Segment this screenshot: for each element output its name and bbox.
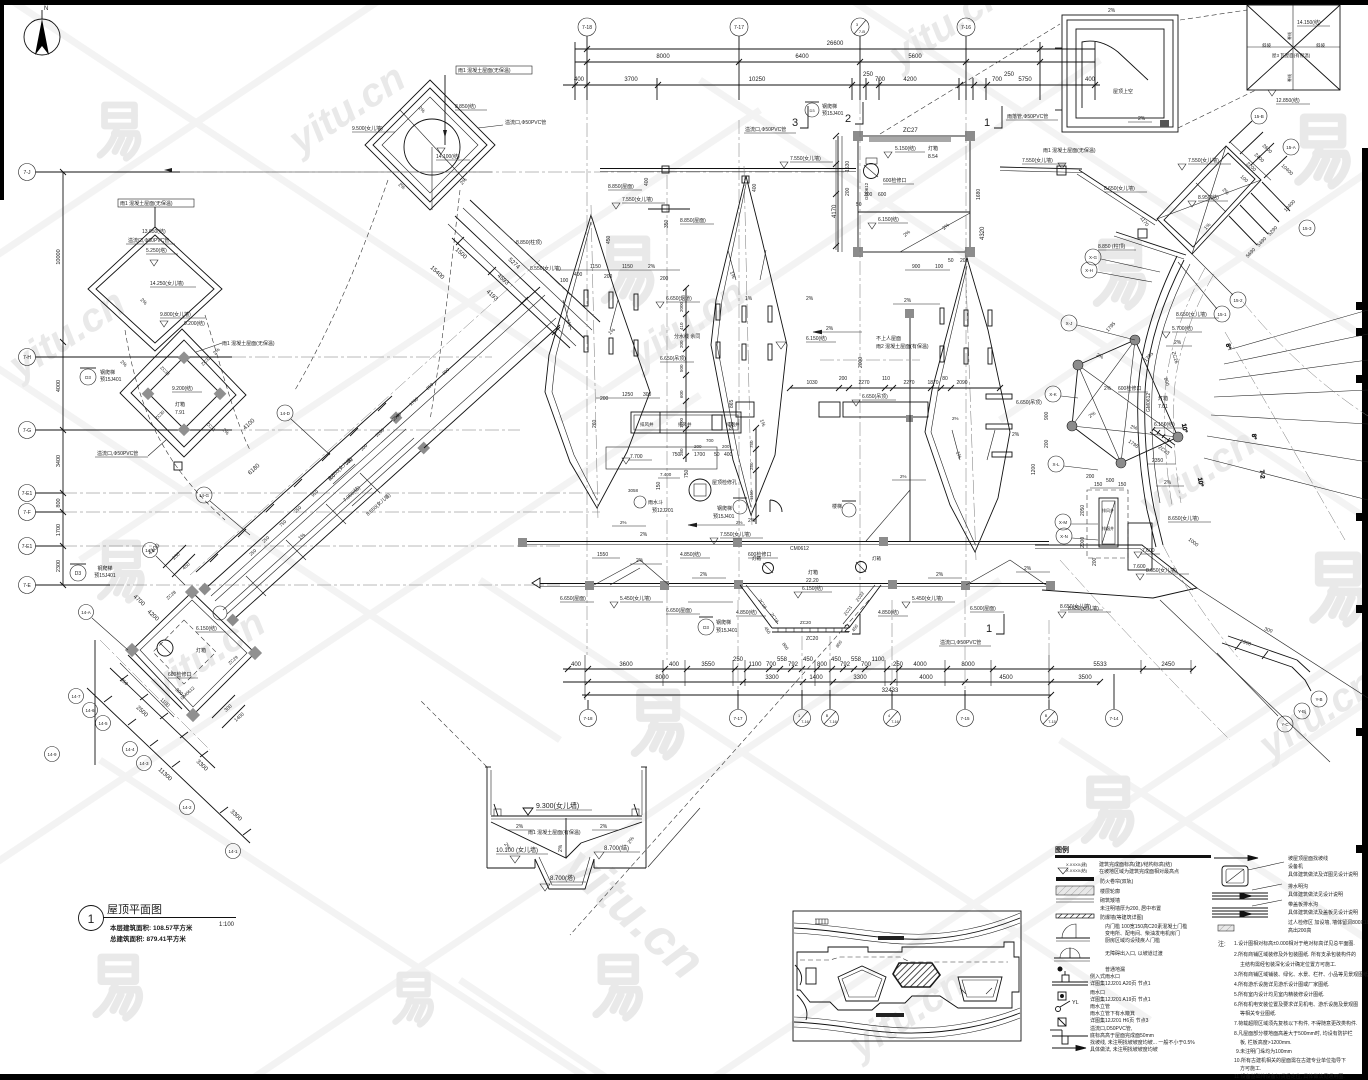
svg-text:雨1 混凝土屋面(有保温): 雨1 混凝土屋面(有保温) xyxy=(528,829,581,836)
svg-text:排水明沟: 排水明沟 xyxy=(1288,883,1308,890)
grid bubble 3/7-B xyxy=(851,18,869,100)
svg-text:7-16: 7-16 xyxy=(829,720,837,724)
svg-text:楼梯: 楼梯 xyxy=(832,503,842,510)
small diamond D2 xyxy=(88,199,222,351)
svg-text:2000: 2000 xyxy=(858,357,864,368)
svg-text:具体建筑做法见设计说明: 具体建筑做法见设计说明 xyxy=(1288,891,1343,898)
svg-text:无障碍出入口, 以坡道过渡: 无障碍出入口, 以坡道过渡 xyxy=(1105,950,1163,957)
far top-right tile roof square xyxy=(1247,5,1340,104)
svg-text:溢流口,Φ50PVC管: 溢流口,Φ50PVC管 xyxy=(940,639,981,646)
svg-text:1700: 1700 xyxy=(694,452,705,458)
2% arrows field xyxy=(688,523,745,527)
dashed leaders between diamonds xyxy=(125,330,225,520)
svg-text:400: 400 xyxy=(574,272,583,278)
svg-text:普通地漏: 普通地漏 xyxy=(1105,966,1125,973)
svg-text:32433: 32433 xyxy=(882,688,899,694)
row: side rain inlet xyxy=(1052,971,1088,985)
svg-text:2%: 2% xyxy=(1108,8,1116,14)
svg-text:1150: 1150 xyxy=(749,490,754,500)
light grid verticals central xyxy=(180,100,966,660)
svg-text:750: 750 xyxy=(749,440,754,448)
svg-text:7.600: 7.600 xyxy=(1133,564,1146,570)
svg-text:9.300(女儿墙): 9.300(女儿墙) xyxy=(536,801,579,810)
svg-text:12.850(结): 12.850(结) xyxy=(1276,97,1300,104)
leader dashed from tower to detail xyxy=(880,24,1060,134)
svg-text:D3: D3 xyxy=(75,571,82,577)
svg-text:X-L: X-L xyxy=(1052,462,1060,467)
svg-text:900: 900 xyxy=(912,264,921,270)
svg-text:1.设计图相对标高±0.000相对于绝对标高详见总平面图.: 1.设计图相对标高±0.000相对于绝对标高详见总平面图. xyxy=(1234,940,1355,947)
svg-text:4500: 4500 xyxy=(999,675,1013,681)
svg-text:预15J401: 预15J401 xyxy=(94,572,116,579)
svg-text:7-2: 7-2 xyxy=(1258,470,1265,480)
left grid bubbles column xyxy=(19,164,601,762)
svg-text:排风井: 排风井 xyxy=(1102,507,1114,513)
svg-text:6.150(结): 6.150(结) xyxy=(802,585,823,592)
svg-text:X-G: X-G xyxy=(1089,255,1098,260)
svg-text:14-2: 14-2 xyxy=(182,805,192,810)
svg-text:5.700(结): 5.700(结) xyxy=(1172,325,1193,332)
site inset key plan xyxy=(793,911,1021,1041)
north arrow xyxy=(24,6,60,55)
corridor stub to lower-left xyxy=(128,655,182,709)
svg-text:4200: 4200 xyxy=(903,77,917,83)
svg-text:预15J401: 预15J401 xyxy=(716,627,738,634)
svg-text:4.850(结): 4.850(结) xyxy=(878,609,899,616)
svg-text:2%: 2% xyxy=(806,296,814,302)
svg-text:雨水斗: 雨水斗 xyxy=(648,499,663,506)
svg-text:2%: 2% xyxy=(648,264,656,270)
svg-text:1150: 1150 xyxy=(590,264,601,270)
svg-text:4: 4 xyxy=(888,714,890,718)
X bubbles leaders xyxy=(1045,249,1101,544)
svg-text:脊线: 脊线 xyxy=(1286,74,1292,82)
hatched hexagon xyxy=(893,963,940,987)
row: floor profile xyxy=(1056,886,1094,895)
svg-text:400: 400 xyxy=(574,77,585,83)
svg-text:1150: 1150 xyxy=(622,264,633,270)
svg-text:1:100: 1:100 xyxy=(219,922,235,928)
svg-text:680检修口: 680检修口 xyxy=(168,671,191,678)
svg-text:450: 450 xyxy=(803,657,814,663)
svg-text:8.850(屋面): 8.850(屋面) xyxy=(680,218,706,224)
svg-text:8.650(女儿墙): 8.650(女儿墙) xyxy=(1146,567,1177,574)
dimension line 400/3700/10250/250/700/4200/700/250/5750/400 xyxy=(563,42,1100,100)
svg-text:侧入式雨水口: 侧入式雨水口 xyxy=(1090,973,1120,980)
svg-text:4320: 4320 xyxy=(980,226,986,240)
svg-text:雨1 混凝土屋面(无保温): 雨1 混凝土屋面(无保温) xyxy=(222,340,275,347)
svg-text:13.650(结): 13.650(结) xyxy=(142,228,166,235)
svg-text:8.650(女儿墙): 8.650(女儿墙) xyxy=(1176,311,1207,318)
svg-text:7-17: 7-17 xyxy=(734,25,744,31)
mid parapet upper xyxy=(518,309,1049,564)
central vertical dim chains xyxy=(612,285,959,526)
svg-text:预15J401: 预15J401 xyxy=(713,513,735,520)
Y leader bottom right xyxy=(1217,626,1327,732)
svg-text:6.650(吊顶): 6.650(吊顶) xyxy=(862,394,888,400)
svg-text:斜坡: 斜坡 xyxy=(1316,42,1325,49)
grid bubble 15-3 xyxy=(1299,220,1315,236)
svg-text:找坡线, 未注明找坡坡度均坡... 一般不小于0.5%: 找坡线, 未注明找坡坡度均坡... 一般不小于0.5% xyxy=(1090,1039,1195,1046)
svg-text:26600: 26600 xyxy=(827,41,844,47)
svg-text:400: 400 xyxy=(752,183,758,192)
svg-text:6.150(结): 6.150(结) xyxy=(806,335,827,342)
svg-text:7.700: 7.700 xyxy=(630,454,643,460)
svg-text:400: 400 xyxy=(669,662,680,668)
svg-text:X.XXXX(建): X.XXXX(建) xyxy=(1066,861,1088,867)
row: low wall xyxy=(1056,899,1094,902)
svg-text:防爆墙(等建筑详图): 防爆墙(等建筑详图) xyxy=(1100,914,1144,921)
svg-text:7-E1: 7-E1 xyxy=(22,491,33,497)
svg-text:8000: 8000 xyxy=(656,54,670,60)
svg-text:3.所有商铺区域铺装、绿化、水景、栏杆、小品等见景观图纸.: 3.所有商铺区域铺装、绿化、水景、栏杆、小品等见景观图纸. xyxy=(1234,971,1368,978)
svg-text:详图集12J201 A20页 节点1: 详图集12J201 A20页 节点1 xyxy=(1090,980,1151,987)
bottom road xyxy=(794,1013,1020,1033)
svg-text:14-6: 14-6 xyxy=(85,708,95,713)
svg-text:5.250(塔): 5.250(塔) xyxy=(146,247,167,254)
svg-text:22.20: 22.20 xyxy=(806,578,819,584)
svg-text:ZC20: ZC20 xyxy=(800,620,812,625)
svg-text:排烟井: 排烟井 xyxy=(1102,525,1114,531)
grid bubble 15-2 / 15-1 xyxy=(1214,292,1246,322)
svg-text:溢流口,Φ50PVC管: 溢流口,Φ50PVC管 xyxy=(128,237,169,244)
svg-text:250: 250 xyxy=(863,72,874,78)
svg-text:灯箱: 灯箱 xyxy=(175,401,185,408)
svg-text:X-J: X-J xyxy=(1066,321,1073,326)
svg-text:14-1: 14-1 xyxy=(228,849,238,854)
svg-text:7-E: 7-E xyxy=(23,583,31,589)
grid bubble 15-A xyxy=(1283,139,1299,155)
svg-text:7.01: 7.01 xyxy=(1158,404,1168,410)
mid parapet lower xyxy=(532,546,1103,614)
svg-text:总建筑面积: 879.41平方米: 总建筑面积: 879.41平方米 xyxy=(110,934,186,943)
leaf 1 xyxy=(545,215,650,508)
svg-text:2%: 2% xyxy=(600,824,608,830)
svg-text:11.设备基础待设备订货后定位, 具体做法见通用图.: 11.设备基础待设备订货后定位, 具体做法见通用图. xyxy=(1234,1073,1345,1080)
perpendicular tick chains near pavilion xyxy=(163,545,245,728)
svg-text:B: B xyxy=(1045,714,1048,718)
duct rects between leaf2 and leaf3 xyxy=(729,394,1050,475)
grid bubble 7-J xyxy=(19,164,493,181)
svg-text:7-18: 7-18 xyxy=(582,25,592,31)
svg-text:CM0612: CM0612 xyxy=(790,546,809,552)
svg-text:250: 250 xyxy=(733,657,744,663)
svg-text:B: B xyxy=(826,714,829,718)
svg-text:700: 700 xyxy=(861,662,872,668)
svg-text:1870: 1870 xyxy=(927,380,938,386)
dim chain top-right of annex xyxy=(1229,121,1252,143)
svg-text:9.未注明门垛均为100mm: 9.未注明门垛均为100mm xyxy=(1236,1048,1292,1055)
svg-text:100: 100 xyxy=(935,264,944,270)
svg-text:7-G: 7-G xyxy=(23,428,31,434)
svg-text:5.所有室内设计均见室内精装修设计图纸.: 5.所有室内设计均见室内精装修设计图纸. xyxy=(1234,991,1325,998)
svg-text:7-E1: 7-E1 xyxy=(22,544,33,550)
svg-text:700: 700 xyxy=(875,77,886,83)
left blobs xyxy=(795,965,802,985)
svg-text:4000: 4000 xyxy=(56,380,62,392)
sheet frame right bar xyxy=(1362,148,1368,1080)
bottom grid bubble row xyxy=(580,600,1123,727)
svg-text:9.200(结): 9.200(结) xyxy=(184,320,205,327)
svg-text:10.所有古建机相关的屋面需在古建专业单位指导下: 10.所有古建机相关的屋面需在古建专业单位指导下 xyxy=(1234,1057,1346,1064)
top-right roof void detail rect xyxy=(1055,8,1178,132)
svg-text:7-15: 7-15 xyxy=(960,716,970,721)
svg-text:过人检修区 加设墙, 墙体留洞800X1800: 过人检修区 加设墙, 墙体留洞800X1800 xyxy=(1288,919,1368,926)
svg-text:410: 410 xyxy=(679,322,684,330)
svg-text:雨水立管下有水簸箕: 雨水立管下有水簸箕 xyxy=(1090,1010,1135,1017)
grid bubble 7-E1 xyxy=(19,485,601,502)
svg-text:坡屋顶屋面找坡线: 坡屋顶屋面找坡线 xyxy=(1288,855,1328,862)
svg-text:图例: 图例 xyxy=(1055,845,1069,854)
svg-text:7-16: 7-16 xyxy=(961,25,971,31)
svg-text:2270: 2270 xyxy=(858,380,869,386)
top road xyxy=(794,918,1020,939)
svg-text:YL: YL xyxy=(1072,1000,1079,1006)
svg-text:900: 900 xyxy=(1044,411,1050,420)
svg-text:800: 800 xyxy=(56,498,62,507)
svg-text:8000: 8000 xyxy=(655,675,669,681)
svg-text:6.所有机电安装位置及要求详见机电、游乐设施及景观图: 6.所有机电安装位置及要求详见机电、游乐设施及景观图 xyxy=(1234,1001,1358,1008)
svg-text:150: 150 xyxy=(1094,482,1103,488)
svg-text:N: N xyxy=(44,6,48,12)
svg-text:10250: 10250 xyxy=(749,77,766,83)
svg-text:2%: 2% xyxy=(558,844,564,852)
svg-text:8.凡屋面部分楼地面高差大于500mm时, 均设有防护栏: 8.凡屋面部分楼地面高差大于500mm时, 均设有防护栏 xyxy=(1234,1030,1353,1037)
svg-text:溢流口,Φ50PVC管: 溢流口,Φ50PVC管 xyxy=(505,119,546,126)
bottom-left rotated pavilion xyxy=(100,585,262,750)
svg-text:7.550(女儿墙): 7.550(女儿墙) xyxy=(1022,157,1053,164)
svg-text:200: 200 xyxy=(1044,439,1050,448)
svg-text:1: 1 xyxy=(88,912,95,926)
svg-text:2%: 2% xyxy=(1138,116,1146,122)
svg-text:本层建筑面积: 108.57平方米: 本层建筑面积: 108.57平方米 xyxy=(110,923,193,932)
svg-text:X-H: X-H xyxy=(1085,268,1093,273)
svg-text:7-17: 7-17 xyxy=(733,716,743,721)
dimension line 26600 xyxy=(575,41,1095,52)
spindle leaf roofs xyxy=(545,166,1010,602)
right side: parapet to rotated annex xyxy=(1000,108,1315,322)
radial fan lines to right edge xyxy=(1180,302,1368,540)
row: door sill xyxy=(1056,924,1090,941)
svg-text:1100: 1100 xyxy=(749,662,763,668)
svg-text:D3: D3 xyxy=(85,375,91,380)
svg-text:屋顶检修孔: 屋顶检修孔 xyxy=(712,479,737,486)
svg-text:厨房区域均设残疾人门槛: 厨房区域均设残疾人门槛 xyxy=(1105,937,1160,944)
upper-left diamond pavilion D1 xyxy=(352,66,546,210)
svg-text:2%: 2% xyxy=(936,572,944,578)
svg-text:1: 1 xyxy=(986,623,992,635)
svg-text:建筑完成面标高(建)/结构标高(结): 建筑完成面标高(建)/结构标高(结) xyxy=(1099,861,1172,868)
svg-text:雨1 混凝土屋面(无保温): 雨1 混凝土屋面(无保温) xyxy=(458,67,511,74)
svg-text:具体建筑做法及盖板见设计说明: 具体建筑做法及盖板见设计说明 xyxy=(1288,909,1358,916)
hexagonal pavilion right xyxy=(1045,249,1183,544)
slope arrows inside leaves xyxy=(563,250,995,460)
svg-text:雨水口: 雨水口 xyxy=(1090,989,1105,996)
svg-text:板, 栏板高度>1200mm.: 板, 栏板高度>1200mm. xyxy=(1240,1039,1292,1046)
svg-text:溢流口,Φ50PVC管: 溢流口,Φ50PVC管 xyxy=(97,450,138,457)
svg-text:200: 200 xyxy=(600,396,609,402)
svg-text:792: 792 xyxy=(788,662,799,668)
dim chain bottom-right of annex xyxy=(1262,182,1290,211)
svg-text:砌筑矮墙: 砌筑矮墙 xyxy=(1100,897,1120,904)
section detail U-shape xyxy=(420,700,700,891)
svg-text:3700: 3700 xyxy=(624,77,638,83)
svg-text:14-A: 14-A xyxy=(81,610,91,615)
svg-text:7-J: 7-J xyxy=(24,170,31,176)
svg-text:200: 200 xyxy=(1092,557,1098,566)
svg-text:200: 200 xyxy=(1086,474,1095,480)
sheet frame left bar xyxy=(0,0,4,200)
svg-text:50: 50 xyxy=(714,452,720,458)
svg-text:变电所、配电间、柴油发电机房门: 变电所、配电间、柴油发电机房门 xyxy=(1105,930,1180,937)
svg-text:钢爬梯: 钢爬梯 xyxy=(100,369,115,376)
svg-text:灯箱: 灯箱 xyxy=(872,555,881,562)
svg-text:300: 300 xyxy=(643,392,652,398)
svg-text:灯箱: 灯箱 xyxy=(928,145,938,152)
svg-text:14-B: 14-B xyxy=(145,548,155,553)
svg-text:溢流口,D50PVC管,: 溢流口,D50PVC管, xyxy=(1090,1025,1132,1032)
row: rain inlet xyxy=(1058,992,1066,1000)
svg-text:15-1: 15-1 xyxy=(1217,312,1227,317)
svg-text:700: 700 xyxy=(766,662,777,668)
svg-text:2090: 2090 xyxy=(956,380,967,386)
svg-text:7-H: 7-H xyxy=(23,355,31,361)
svg-text:15-2: 15-2 xyxy=(1233,298,1243,303)
svg-text:5750: 5750 xyxy=(1018,77,1032,83)
svg-text:2%: 2% xyxy=(826,326,834,332)
rotated annex rectangle xyxy=(1157,146,1261,254)
svg-text:15-3: 15-3 xyxy=(1302,226,1312,231)
svg-text:750: 750 xyxy=(684,469,690,478)
svg-text:带盖板排水沟: 带盖板排水沟 xyxy=(1288,901,1318,908)
svg-text:ZC20: ZC20 xyxy=(806,636,818,642)
svg-text:2: 2 xyxy=(845,113,851,125)
svg-text:4.所有游乐设施详见游乐设计图或厂家图纸.: 4.所有游乐设施详见游乐设计图或厂家图纸. xyxy=(1234,981,1330,988)
svg-text:7.400: 7.400 xyxy=(660,472,672,477)
svg-text:2%: 2% xyxy=(1012,432,1020,438)
svg-text:750: 750 xyxy=(672,452,681,458)
svg-text:7-16: 7-16 xyxy=(801,720,809,724)
svg-text:Y-Bj: Y-Bj xyxy=(1298,709,1306,714)
svg-text:D3: D3 xyxy=(703,625,709,630)
svg-text:50: 50 xyxy=(856,202,862,208)
svg-text:Y-B: Y-B xyxy=(1315,697,1322,702)
grid bubble 7-E2 xyxy=(19,538,561,555)
central dim row 1030/200/2270 xyxy=(787,376,1003,391)
svg-text:2050: 2050 xyxy=(1080,505,1086,516)
watermark glyph 易 instances xyxy=(96,105,1361,1025)
svg-text:8.850(柱顶): 8.850(柱顶) xyxy=(516,239,542,246)
svg-text:260: 260 xyxy=(592,419,598,428)
svg-text:钢爬梯: 钢爬梯 xyxy=(97,565,112,572)
svg-text:14.150(结): 14.150(结) xyxy=(1297,19,1321,26)
svg-text:不上人屋面: 不上人屋面 xyxy=(876,335,901,342)
sheet frame top bar xyxy=(0,0,1368,5)
svg-text:1400: 1400 xyxy=(809,675,823,681)
svg-text:7-F: 7-F xyxy=(23,510,31,516)
svg-text:预15J401: 预15J401 xyxy=(100,376,122,383)
svg-text:6.150(结): 6.150(结) xyxy=(196,625,217,632)
leaf 2 xyxy=(711,176,787,515)
svg-text:1550: 1550 xyxy=(597,552,608,558)
svg-text:雨落管,Φ50PVC管: 雨落管,Φ50PVC管 xyxy=(1007,113,1048,120)
svg-text:雨2 混凝土屋面(有保温): 雨2 混凝土屋面(有保温) xyxy=(876,343,929,350)
svg-text:详图集12J201 A19页 节点1: 详图集12J201 A19页 节点1 xyxy=(1090,996,1151,1003)
svg-text:1530: 1530 xyxy=(845,161,851,172)
hatch bars leaf1 xyxy=(584,290,992,364)
grid bubble 14-G xyxy=(196,487,250,535)
svg-text:800: 800 xyxy=(817,662,828,668)
svg-text:6.650(屋面): 6.650(屋面) xyxy=(560,596,586,602)
svg-text:6.650(屋面): 6.650(屋面) xyxy=(666,608,692,614)
svg-text:2%: 2% xyxy=(900,474,907,479)
top comb xyxy=(815,919,828,924)
svg-text:600: 600 xyxy=(878,192,887,198)
hatched strut xyxy=(1150,427,1175,448)
svg-text:600检修口: 600检修口 xyxy=(883,177,906,184)
svg-text:排风井: 排风井 xyxy=(640,421,654,428)
grid bubble 7-16 xyxy=(957,18,975,100)
svg-text:ZC27: ZC27 xyxy=(903,128,918,134)
svg-text:2%: 2% xyxy=(636,558,644,564)
svg-text:1030: 1030 xyxy=(806,380,817,386)
svg-text:6.650(烟道): 6.650(烟道) xyxy=(666,295,692,302)
svg-text:注:: 注: xyxy=(1218,940,1226,948)
left pavilion xyxy=(838,966,886,1001)
svg-text:在坡地区域为建筑完成面相对最高点: 在坡地区域为建筑完成面相对最高点 xyxy=(1099,868,1179,875)
svg-text:1: 1 xyxy=(798,714,800,718)
leader to roof note xyxy=(444,75,446,145)
svg-text:2000: 2000 xyxy=(679,301,684,312)
svg-text:2450: 2450 xyxy=(1161,662,1175,668)
svg-text:4.850(结): 4.850(结) xyxy=(736,609,757,616)
svg-text:500: 500 xyxy=(1106,478,1115,484)
leaf 3 xyxy=(925,258,1010,552)
svg-text:2%: 2% xyxy=(736,520,743,525)
svg-text:200: 200 xyxy=(839,376,848,382)
svg-text:14-7: 14-7 xyxy=(71,694,81,699)
svg-text:7.600: 7.600 xyxy=(1142,548,1155,554)
svg-text:GM0612: GM0612 xyxy=(1146,393,1152,412)
svg-text:3300: 3300 xyxy=(765,675,779,681)
svg-text:2350: 2350 xyxy=(1152,458,1163,464)
open gutter xyxy=(1212,884,1282,899)
svg-text:8.700(结): 8.700(结) xyxy=(604,844,629,852)
strut upper xyxy=(1079,170,1157,221)
svg-text:内门槛 100宽150高C20素混凝土门槛: 内门槛 100宽150高C20素混凝土门槛 xyxy=(1105,923,1187,930)
svg-text:6.650(吊顶): 6.650(吊顶) xyxy=(660,356,686,362)
svg-text:1700: 1700 xyxy=(56,524,62,536)
row: level symbol xyxy=(1058,861,1179,875)
svg-text:2%: 2% xyxy=(1174,340,1182,346)
svg-text:3600: 3600 xyxy=(619,662,633,668)
svg-text:2%: 2% xyxy=(620,520,627,525)
svg-text:8.700(塔): 8.700(塔) xyxy=(550,874,575,882)
svg-text:设备机: 设备机 xyxy=(1288,863,1303,870)
svg-text:D3: D3 xyxy=(809,108,815,113)
svg-text:1250: 1250 xyxy=(622,392,633,398)
svg-text:未注明墙厚为200, 居中布置: 未注明墙厚为200, 居中布置 xyxy=(1100,905,1161,912)
svg-text:14-4: 14-4 xyxy=(125,747,135,752)
svg-text:4000: 4000 xyxy=(919,675,933,681)
svg-text:Y-C: Y-C xyxy=(1281,722,1289,727)
svg-text:分水线 余同: 分水线 余同 xyxy=(674,333,700,340)
lower-right roof polygon xyxy=(1035,474,1211,618)
svg-text:250: 250 xyxy=(749,462,754,470)
dark bars xyxy=(878,936,904,940)
upper wing band between diamond1 and center xyxy=(429,200,600,348)
svg-text:14.100(结): 14.100(结) xyxy=(436,153,460,160)
